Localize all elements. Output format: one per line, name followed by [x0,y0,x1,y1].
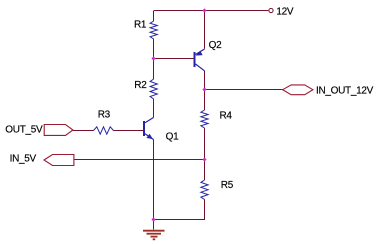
svg-text:R5: R5 [221,180,234,191]
svg-text:IN_OUT_12V: IN_OUT_12V [316,85,374,96]
svg-text:R2: R2 [134,80,147,91]
svg-text:Q1: Q1 [166,131,179,142]
svg-text:R4: R4 [220,111,233,122]
svg-text:R1: R1 [134,20,147,31]
svg-text:IN_5V: IN_5V [10,154,37,165]
svg-text:R3: R3 [98,110,111,121]
svg-text:OUT_5V: OUT_5V [5,125,43,136]
svg-text:Q2: Q2 [209,40,222,51]
svg-text:12V: 12V [276,7,294,18]
